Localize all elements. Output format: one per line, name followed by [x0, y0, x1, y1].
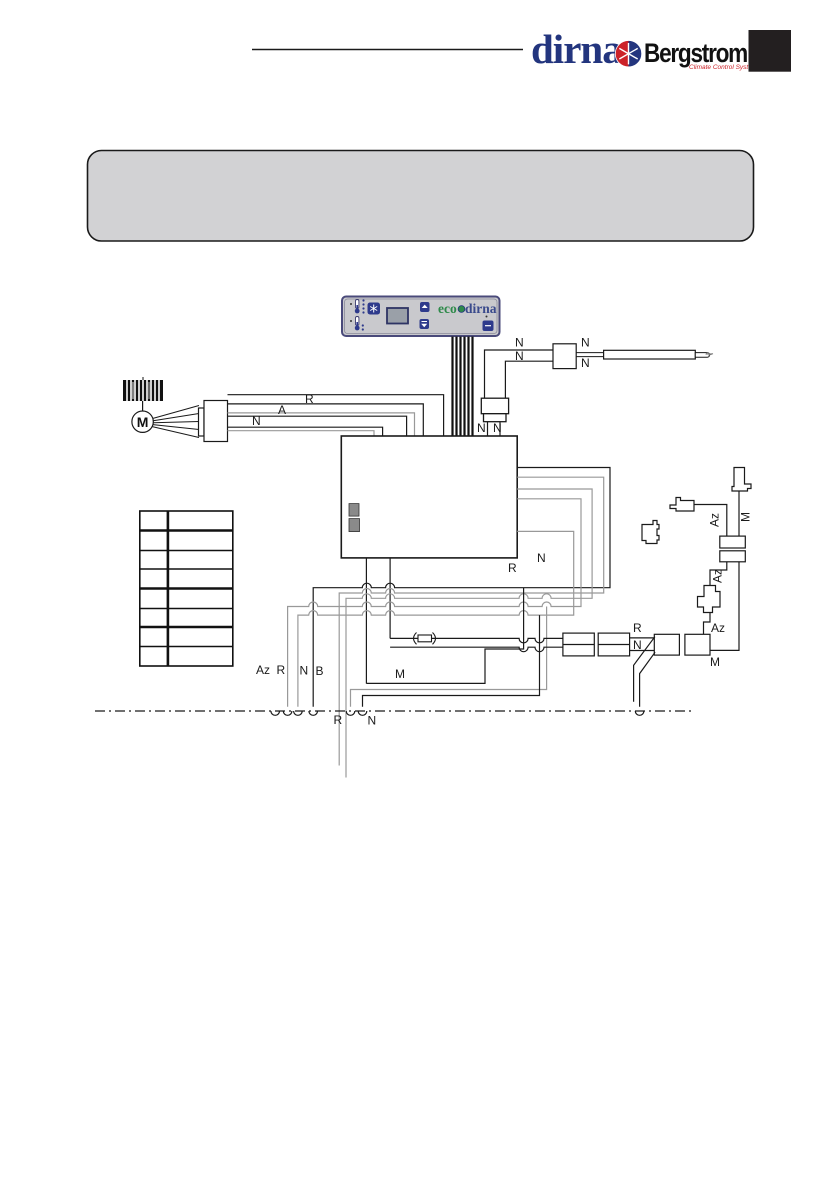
- bus wire 3 (gray) box-right to connector drop: [346, 489, 592, 778]
- temperature sensor connector box: [553, 344, 576, 369]
- inline fuse wire: [390, 638, 563, 643]
- fan connector big rect: [204, 401, 228, 442]
- panel thermometer icon lower: [350, 317, 364, 331]
- fuse F1: [563, 633, 594, 656]
- control panel U10 body: [342, 297, 500, 337]
- fan resistor striped block: [123, 377, 163, 401]
- panel up button: [420, 302, 430, 312]
- svg-text:N: N: [537, 551, 546, 565]
- wire stepped to square B: [704, 613, 711, 635]
- logo black block: [749, 30, 792, 72]
- wire T2 to relay (M): [738, 491, 740, 536]
- svg-text:N: N: [515, 349, 524, 363]
- fuse feed wire 2: [390, 647, 563, 652]
- M loop wire: [366, 588, 523, 684]
- ECU indicator square 2: [349, 519, 360, 532]
- spade terminal T1: [670, 498, 694, 512]
- wire relay M to square B: [710, 562, 739, 651]
- svg-text:M: M: [739, 512, 753, 522]
- svg-text:Az: Az: [256, 663, 270, 677]
- fuse F2: [598, 633, 629, 656]
- svg-text:R: R: [508, 561, 517, 575]
- relay K1 block lower: [720, 551, 746, 562]
- bus wire R (gray): [288, 499, 581, 707]
- svg-text:N: N: [493, 421, 502, 435]
- wire relay to stepped connector Az: [710, 562, 727, 586]
- spade terminal T2: [732, 468, 751, 492]
- sensor cab connector: [481, 398, 508, 414]
- svg-text:R: R: [305, 392, 314, 406]
- ECU indicator square 1: [349, 504, 359, 516]
- panel LCD display: [387, 308, 408, 324]
- svg-text:R: R: [633, 621, 642, 635]
- svg-text:N: N: [581, 336, 590, 350]
- svg-text:N: N: [515, 336, 524, 350]
- svg-text:N: N: [368, 714, 377, 728]
- blower motor M1 circle: [132, 411, 153, 432]
- inline fuse F3 glyph: [414, 633, 417, 645]
- sensor probe neck: [576, 352, 603, 354]
- svg-text:dirna: dirna: [531, 26, 622, 72]
- panel cable bundle: [453, 337, 473, 437]
- panel down button: [420, 319, 430, 329]
- svg-text:dirna: dirna: [465, 301, 497, 316]
- wire R-pair drop (gray): [351, 607, 547, 707]
- motor fan-out wires: [152, 406, 199, 438]
- bus wire N (gray): [298, 531, 574, 706]
- svg-text:Az: Az: [711, 569, 725, 583]
- logo globe circle: [615, 41, 641, 67]
- svg-text:M: M: [710, 655, 720, 669]
- fan harness wires to ECU: [228, 395, 444, 436]
- title banner rounded box: [88, 151, 754, 242]
- diagonal wire R down: [634, 637, 655, 702]
- sensor wires to cab connector: [485, 350, 554, 398]
- ECU bottom lead 1: [365, 558, 367, 684]
- svg-text:N: N: [581, 356, 590, 370]
- connector square B: [685, 634, 710, 655]
- connector square A: [654, 634, 679, 655]
- panel power dot: [486, 316, 488, 318]
- ECU control unit box: [341, 436, 517, 558]
- bus wire 2 (gray) box-right to connector drop: [339, 477, 604, 765]
- svg-text:M: M: [137, 414, 149, 430]
- svg-text:Az: Az: [711, 621, 725, 635]
- legend table: [140, 511, 233, 666]
- diagonal wire N down: [640, 652, 656, 707]
- svg-text:N: N: [300, 664, 309, 678]
- wire fuse to square N: [630, 650, 655, 652]
- fan connector small rect: [199, 408, 205, 436]
- panel minus button: [483, 321, 494, 332]
- svg-text:Az: Az: [708, 513, 722, 527]
- spade terminal T3: [642, 521, 659, 544]
- ECU bottom lead 2 (to inline fuse): [389, 558, 391, 639]
- sensor probe tip: [695, 353, 709, 358]
- header rule line: [252, 49, 523, 51]
- panel snowflake button: [368, 303, 381, 315]
- sensor connector leads into ECU: [487, 422, 489, 436]
- svg-text:M: M: [395, 667, 405, 681]
- svg-text:R: R: [277, 663, 286, 677]
- crossing cups at separator: [271, 711, 644, 715]
- bus wire B (dark) box-right to left vertical: [313, 468, 610, 707]
- relay K1 block upper: [720, 536, 746, 548]
- svg-text:eco: eco: [438, 301, 457, 316]
- svg-text:N: N: [633, 638, 642, 652]
- svg-text:N: N: [477, 421, 486, 435]
- panel thermometer icon upper: [350, 299, 365, 313]
- wire fuse to square R: [630, 637, 655, 639]
- svg-text:N: N: [252, 414, 261, 428]
- wire T1 to relay: [694, 505, 727, 537]
- stepped connector: [698, 586, 721, 613]
- svg-text:R: R: [334, 713, 343, 727]
- svg-text:A: A: [278, 403, 286, 417]
- cab/chassis dash-dot separator: [95, 710, 694, 712]
- sensor probe body: [604, 350, 696, 359]
- wire fan block to motor: [142, 401, 144, 411]
- wire N-pair drop (dark): [363, 615, 540, 707]
- svg-text:B: B: [316, 664, 324, 678]
